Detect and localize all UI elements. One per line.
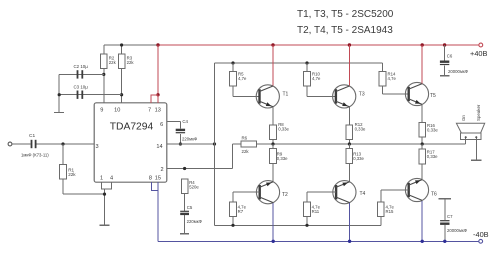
svg-text:7: 7	[148, 108, 151, 114]
wire top base line	[215, 62, 383, 64]
node red bracket	[156, 93, 159, 96]
wire jog to R6	[232, 143, 241, 145]
svg-text:C6: C6	[447, 54, 453, 59]
ground left	[54, 112, 64, 114]
wire red bracket to pin 7	[151, 94, 158, 96]
resistor R8	[270, 122, 290, 140]
wire speaker left lead	[465, 137, 467, 144]
capacitor C1	[31, 140, 37, 148]
svg-text:0,33e: 0,33e	[278, 127, 289, 132]
wire C4 to pin14 line	[179, 134, 181, 144]
wire pin 2	[167, 168, 233, 170]
pin numbers of U1	[95, 108, 163, 182]
annotation transistor types	[297, 9, 394, 36]
wire red T3 collector	[348, 45, 350, 86]
ground C7	[439, 198, 451, 200]
wire R3 to pin 10	[121, 69, 123, 103]
wire R11 to bottom line	[306, 216, 308, 225]
svg-text:1: 1	[100, 175, 103, 181]
transistor T2	[256, 181, 288, 204]
resistor R4	[181, 179, 199, 194]
svg-text:4,7e: 4,7e	[312, 76, 321, 81]
node blue rail C7	[443, 240, 446, 243]
wire base T1	[233, 95, 260, 97]
label C5	[187, 205, 193, 210]
wire left ground rail	[58, 74, 60, 112]
label -40V	[473, 230, 489, 239]
resistor R6	[241, 141, 256, 147]
wire R2 to pin 9	[103, 69, 105, 103]
node R5 top	[231, 61, 234, 64]
resistor R5	[230, 71, 247, 86]
capacitor C3	[77, 91, 84, 99]
node R7 bottom	[231, 224, 234, 227]
wire R10 to T3 base	[306, 86, 308, 96]
terminal -40V	[479, 239, 483, 243]
svg-text:R11: R11	[312, 209, 320, 214]
wire R1 to ground bus	[63, 193, 105, 195]
wire T6 to blue rail	[421, 201, 423, 242]
resistor R11	[304, 202, 321, 217]
wire C7 from ground	[444, 199, 446, 220]
wire R12 to output	[348, 140, 350, 145]
wire C7 to blue rail	[444, 225, 446, 241]
resistor R7	[230, 202, 247, 217]
svg-text:13: 13	[155, 108, 161, 114]
wire R14 top corner	[382, 63, 384, 72]
resistor R14	[379, 71, 396, 86]
wire red pin7 stub	[150, 94, 152, 102]
wire C6 top	[444, 45, 446, 61]
wire driver rail vertical	[214, 63, 216, 225]
node blue pair1	[272, 240, 275, 243]
op-amp U1 TDA7294 body	[94, 103, 167, 182]
svg-text:220мкФ: 220мкФ	[182, 137, 198, 142]
svg-text:0,33e: 0,33e	[355, 127, 366, 132]
svg-text:C2 10µ: C2 10µ	[74, 64, 89, 69]
label C6 value	[448, 69, 469, 74]
svg-text:22k: 22k	[109, 60, 117, 65]
node R3 top rail	[120, 43, 123, 46]
svg-text:20000мкФ: 20000мкФ	[447, 228, 468, 233]
node C3 left junction	[58, 93, 61, 96]
label C1 value	[21, 152, 49, 157]
wire feedback jog up	[231, 144, 233, 169]
svg-text:15: 15	[155, 175, 161, 181]
wire bracket down	[104, 189, 106, 225]
resistor R13	[346, 149, 364, 164]
svg-text:T4: T4	[360, 191, 366, 197]
wire R13 to T4	[348, 163, 350, 181]
wire pins 1 4 bracket	[102, 182, 112, 189]
svg-text:3: 3	[95, 144, 98, 150]
node R11 bottom	[305, 224, 308, 227]
label R6 value	[242, 149, 250, 154]
wire red pin13 stub	[157, 95, 159, 103]
wire bottom base line	[215, 224, 381, 226]
resistor R2	[101, 54, 117, 69]
wire base T5	[383, 93, 409, 95]
wire R16 to output	[421, 137, 423, 144]
wire output to R17	[421, 144, 423, 149]
wire R2 top	[103, 45, 105, 54]
wire output line	[256, 143, 465, 145]
label C4 value	[182, 137, 198, 142]
svg-text:C5: C5	[187, 205, 193, 210]
wire R5 to T1 base	[232, 86, 234, 96]
wire pin15 blue drop	[157, 182, 159, 241]
wire T4 to blue rail	[349, 203, 351, 241]
wire pin6 down to C4	[179, 122, 181, 129]
capacitor C4	[176, 129, 185, 134]
node blue pair3	[421, 240, 424, 243]
wire pin 6	[167, 121, 181, 123]
capacitor C5	[180, 211, 189, 215]
svg-text:14: 14	[156, 144, 162, 150]
svg-text:-40В: -40В	[473, 230, 489, 239]
svg-text:TDA7294: TDA7294	[110, 121, 154, 132]
node red T3 drop	[348, 43, 351, 46]
node red T1 drop	[271, 43, 274, 46]
wire speaker right lead	[475, 137, 477, 160]
wire R14 to T5 base	[382, 86, 384, 94]
svg-text:C7: C7	[447, 214, 453, 219]
node R4 tap	[183, 167, 186, 170]
label Speaker rotated	[476, 104, 481, 121]
svg-text:C4: C4	[182, 119, 188, 124]
label C3 value	[74, 85, 89, 90]
label C4	[182, 119, 188, 124]
wire C3 line	[59, 94, 121, 96]
wire +40V red rail	[158, 44, 479, 46]
speaker Gn	[456, 123, 484, 139]
svg-text:T1, T3, T5 - 2SC5200: T1, T3, T5 - 2SC5200	[297, 9, 394, 20]
wire R17 to T6	[421, 164, 423, 179]
wire R10 top	[306, 63, 308, 72]
wire base T4	[307, 191, 336, 193]
wire T2 to blue rail	[272, 203, 274, 241]
svg-text:6: 6	[160, 122, 163, 128]
svg-text:Speaker: Speaker	[476, 104, 481, 121]
wire base T2	[233, 191, 260, 193]
svg-text:T2: T2	[282, 192, 288, 198]
wire R9 to T2	[272, 163, 274, 181]
transistor T3	[333, 85, 365, 108]
svg-text:0,33e: 0,33e	[277, 156, 288, 161]
transistor T5	[405, 82, 436, 105]
svg-text:4,7e: 4,7e	[388, 76, 397, 81]
node R3 C3 junction	[120, 93, 123, 96]
node output pair3	[421, 142, 424, 145]
label C2 value	[74, 64, 89, 69]
resistor R3	[118, 54, 134, 69]
terminal +40V	[479, 43, 483, 47]
wire R5 top	[232, 63, 234, 72]
resistor R17	[419, 149, 438, 164]
wire input to C1	[12, 143, 31, 145]
wire R7 to bottom line	[232, 216, 234, 225]
svg-text:520e: 520e	[189, 185, 199, 190]
wire T4 base to R11	[306, 192, 308, 202]
resistor R15	[378, 202, 395, 217]
svg-text:4,7e: 4,7e	[238, 76, 247, 81]
wire R1 bottom	[62, 179, 64, 194]
wire R3 top	[121, 45, 123, 54]
svg-text:T3: T3	[359, 91, 365, 97]
capacitor C2	[77, 70, 84, 78]
svg-text:+40В: +40В	[470, 49, 488, 58]
wire R8 to output	[272, 140, 274, 145]
wire T5 emitter to R16	[421, 105, 423, 123]
svg-text:8: 8	[149, 175, 152, 181]
wire T2 base to R7	[232, 192, 234, 202]
wire output to R9	[272, 144, 274, 149]
label Gn rotated	[461, 115, 466, 121]
label C7 value	[447, 228, 468, 233]
node R1 ground junction	[103, 193, 106, 196]
label R6	[242, 135, 248, 140]
svg-text:R7: R7	[238, 209, 244, 214]
node R2 C2 junction	[102, 73, 105, 76]
wire T6 base to R15	[380, 190, 382, 202]
capacitor C6	[440, 61, 449, 66]
wire pins 8 15 bracket blue	[151, 182, 158, 190]
svg-text:C1: C1	[29, 133, 35, 139]
wire R15 to bottom line	[380, 216, 382, 225]
svg-text:2: 2	[160, 167, 163, 173]
wire red T5 collector	[421, 45, 423, 83]
svg-text:22k: 22k	[68, 172, 76, 177]
svg-text:22k: 22k	[127, 60, 135, 65]
svg-text:0,33e: 0,33e	[427, 154, 438, 159]
wire T3 emitter to R12	[348, 107, 350, 125]
svg-text:9: 9	[100, 108, 103, 114]
svg-text:220мкФ: 220мкФ	[187, 219, 203, 224]
svg-text:Gn: Gn	[461, 115, 466, 121]
node C4 on pin14 line	[179, 142, 182, 145]
node red rail C6	[443, 43, 446, 46]
svg-text:T6: T6	[431, 192, 437, 198]
svg-text:10: 10	[114, 108, 120, 114]
wire C1 to pin 3	[37, 143, 95, 145]
transistor T4	[333, 181, 366, 204]
wire -40V blue rail	[158, 240, 479, 242]
svg-text:0,33e: 0,33e	[427, 128, 438, 133]
transistor T1	[256, 85, 288, 108]
ground under IC	[100, 224, 110, 226]
node pin14 to driver rail	[213, 142, 216, 145]
wire base T3	[307, 95, 336, 97]
wire T1 emitter to R8	[272, 107, 274, 125]
svg-text:22k: 22k	[242, 149, 250, 154]
node output pair2	[348, 142, 351, 145]
svg-text:0,33e: 0,33e	[353, 156, 364, 161]
label +40V	[470, 49, 488, 58]
wire R1 top	[62, 144, 64, 165]
wire output to R13	[348, 144, 350, 149]
svg-text:T5: T5	[430, 93, 436, 99]
svg-text:T1: T1	[283, 91, 289, 97]
svg-text:T2, T4, T5 - 2SA1943: T2, T4, T5 - 2SA1943	[297, 25, 393, 36]
node red rail / pin7-13 drop	[156, 43, 159, 46]
resistor R12	[346, 122, 366, 140]
transistor T6	[405, 178, 437, 201]
input terminal	[8, 142, 12, 146]
node red T5 drop	[421, 43, 424, 46]
svg-text:20000мкФ: 20000мкФ	[448, 69, 469, 74]
capacitor C7	[440, 220, 449, 225]
resistor R16	[419, 123, 438, 138]
label C1	[29, 133, 35, 139]
wire base T6	[381, 189, 409, 191]
ground C5	[180, 233, 189, 235]
resistor R10	[304, 71, 321, 86]
node input/R1 junction	[61, 142, 64, 145]
resistor R1	[60, 165, 77, 180]
svg-text:C3 10µ: C3 10µ	[74, 85, 89, 90]
resistor R9	[270, 149, 288, 164]
svg-text:1мкФ (К73-11): 1мкФ (К73-11)	[21, 152, 49, 157]
wire C5 to ground	[184, 215, 186, 234]
svg-text:R15: R15	[386, 209, 394, 214]
node R10 top	[305, 61, 308, 64]
node blue pair2	[348, 240, 351, 243]
ground C6	[440, 75, 450, 77]
wire red T1 collector	[272, 45, 274, 86]
label C7	[447, 214, 453, 219]
wire C2 line	[59, 73, 104, 75]
wire pin 14 output	[167, 143, 215, 145]
wire top rail R2-R3	[104, 44, 158, 46]
svg-text:R6: R6	[242, 135, 248, 140]
label C5 value	[187, 219, 203, 224]
wire C6 to ground	[444, 66, 446, 76]
ground speaker	[471, 159, 481, 161]
svg-text:4: 4	[110, 175, 113, 181]
wire red drop to pins 7 13	[157, 45, 159, 95]
wire R4 to C5	[184, 194, 186, 211]
node output pair1	[271, 142, 274, 145]
label C6	[447, 54, 453, 59]
